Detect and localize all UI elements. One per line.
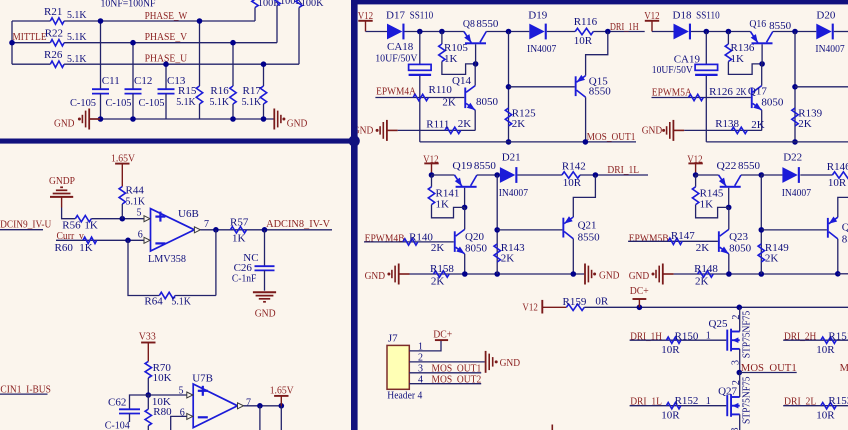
junction node column top xyxy=(494,172,500,178)
junction CA19 top xyxy=(704,29,710,35)
wire DRI_1H to Q15 emitter xyxy=(586,32,608,76)
wire V12 to R159 xyxy=(542,306,566,308)
wire rail exit right xyxy=(838,273,848,275)
svg-text:6: 6 xyxy=(180,408,185,419)
diode D20 IN4007 xyxy=(816,24,831,40)
wire GNDP to R56 xyxy=(62,208,76,219)
wire J7 pin2 to GND xyxy=(409,361,485,363)
wire V12 to D17 xyxy=(366,31,388,33)
junction C12 top xyxy=(130,40,136,46)
svg-text:GND: GND xyxy=(629,270,650,282)
wire ADCIN9_IV-U stub xyxy=(0,229,43,231)
junction rail / node column xyxy=(506,29,512,35)
svg-text:10UF/50V: 10UF/50V xyxy=(375,52,417,64)
junction rail bottom xyxy=(792,139,798,145)
junction pin6 feedback xyxy=(125,238,131,244)
svg-text:10K: 10K xyxy=(153,372,172,384)
svg-text:R110: R110 xyxy=(429,84,453,96)
svg-text:DC+: DC+ xyxy=(433,329,452,341)
svg-text:5: 5 xyxy=(137,208,142,219)
wire EPWM4B to Q20 base xyxy=(364,241,454,243)
wire J7 pin3 xyxy=(409,372,481,374)
svg-text:MOS_OUT2: MOS_OUT2 xyxy=(840,362,848,374)
svg-text:IN4007: IN4007 xyxy=(527,43,557,55)
transistor Q22 8550 xyxy=(720,186,741,188)
op-amp U6B LMV358 xyxy=(151,209,195,251)
wire V12 rail xyxy=(691,31,750,33)
mosfet Q25 STP75NF75 xyxy=(726,330,728,351)
svg-text:C-1nF: C-1nF xyxy=(232,273,257,285)
resistor R64 5.1K xyxy=(159,292,175,298)
svg-text:2K: 2K xyxy=(736,86,747,98)
diode D19 IN4007 xyxy=(529,24,544,40)
svg-text:R158: R158 xyxy=(430,263,454,275)
resistor R22 5.1K xyxy=(50,40,64,46)
svg-text:R141: R141 xyxy=(436,187,460,199)
junction C13 top xyxy=(163,61,169,67)
svg-text:IN4007: IN4007 xyxy=(815,43,845,55)
wire D19 to R116 xyxy=(547,31,575,33)
wire node column xyxy=(794,32,796,142)
wire D20 exit right xyxy=(834,31,848,33)
svg-text:R153: R153 xyxy=(828,395,848,407)
svg-text:R151: R151 xyxy=(828,330,848,342)
svg-text:Q22: Q22 xyxy=(717,160,737,172)
resistor 100K pullup U xyxy=(296,0,302,8)
svg-text:2K: 2K xyxy=(501,252,515,264)
junction R16 top xyxy=(230,40,236,46)
svg-text:10NF=100NF: 10NF=100NF xyxy=(101,0,156,9)
svg-text:100K: 100K xyxy=(301,0,324,9)
svg-text:8550: 8550 xyxy=(769,20,792,32)
svg-text:PHASE_V: PHASE_V xyxy=(145,31,188,43)
svg-text:Q14: Q14 xyxy=(452,75,471,87)
svg-text:2: 2 xyxy=(731,315,742,320)
wire GND rail row2 xyxy=(410,273,585,275)
junction output feedback xyxy=(213,227,219,233)
svg-text:GND: GND xyxy=(287,118,308,130)
resistor R153 10R xyxy=(821,403,837,409)
wire V12 rail xyxy=(405,31,464,33)
svg-text:2K: 2K xyxy=(431,242,445,254)
resistor R26 5.1K xyxy=(50,61,64,67)
svg-text:6: 6 xyxy=(138,230,143,241)
svg-text:SS110: SS110 xyxy=(410,10,434,22)
junction Q15 collector rail xyxy=(583,139,589,145)
svg-text:C11: C11 xyxy=(102,75,120,87)
diode D17 SS110 xyxy=(387,24,402,40)
svg-text:R105: R105 xyxy=(444,42,468,54)
svg-text:8550: 8550 xyxy=(738,160,761,172)
svg-text:R142: R142 xyxy=(562,161,586,173)
junction CA18 top xyxy=(417,29,423,35)
wire EPWM5B to Q23 base xyxy=(628,240,718,242)
capacitor C13 C-105 xyxy=(165,64,167,89)
svg-text:C-105: C-105 xyxy=(139,97,165,109)
junction MOS_OUT1 node xyxy=(737,370,743,376)
wire 1.65V down xyxy=(280,406,282,430)
resistor R145 1K xyxy=(695,175,697,187)
svg-text:R44: R44 xyxy=(126,184,145,196)
wire R142 to DRI_1L xyxy=(580,174,648,176)
svg-text:D22: D22 xyxy=(783,152,802,164)
wire DRI_1L to Q21 emitter xyxy=(573,175,595,217)
svg-text:1K: 1K xyxy=(436,199,450,211)
svg-text:IN4007: IN4007 xyxy=(499,187,529,199)
transistor Q16 8550 xyxy=(752,42,773,44)
svg-text:ADCIN8_IV-V: ADCIN8_IV-V xyxy=(266,218,330,230)
resistor R150 10R xyxy=(666,337,680,343)
wire GND to Q17 emitter xyxy=(684,129,762,131)
svg-text:Q23: Q23 xyxy=(729,231,748,243)
svg-text:GND: GND xyxy=(642,125,663,137)
resistor 100K pullup V xyxy=(274,0,280,6)
wire DC+ rail xyxy=(584,306,848,308)
junction Q25 drain xyxy=(737,305,743,311)
wire R116 to DRI_1H xyxy=(593,31,644,33)
svg-text:8550: 8550 xyxy=(578,232,601,244)
junction V12 stem xyxy=(693,172,699,178)
svg-text:R147: R147 xyxy=(671,230,695,242)
svg-text:D20: D20 xyxy=(816,10,835,22)
transistor Q15 8550 xyxy=(575,76,577,96)
svg-text:EPWM5B: EPWM5B xyxy=(629,233,669,245)
svg-text:5.1K: 5.1K xyxy=(67,9,87,21)
svg-text:8050: 8050 xyxy=(729,242,752,254)
junction rail C11 xyxy=(98,116,104,122)
junction DRI_1L xyxy=(593,172,599,178)
resistor R143 2K xyxy=(494,244,500,262)
wire PHASE_W xyxy=(64,20,255,22)
junction base wire row2 xyxy=(494,227,500,233)
svg-text:C-104: C-104 xyxy=(105,420,130,430)
svg-text:Q8: Q8 xyxy=(463,18,475,30)
svg-text:R136: R136 xyxy=(731,42,755,54)
svg-text:1K: 1K xyxy=(232,233,246,245)
svg-text:V33: V33 xyxy=(139,331,156,343)
wire D22 to R146 xyxy=(800,174,832,176)
svg-text:C-105: C-105 xyxy=(106,97,132,109)
junction DC+ stem xyxy=(637,305,643,311)
svg-text:EPWM4B: EPWM4B xyxy=(365,233,405,245)
wire Q19 collector to node xyxy=(477,174,497,176)
resistor R138 2K xyxy=(731,127,747,133)
svg-text:R26: R26 xyxy=(44,49,63,61)
junction R57 C26 xyxy=(262,227,268,233)
resistor R147 2K xyxy=(668,238,682,244)
svg-text:Q16: Q16 xyxy=(749,18,766,30)
svg-text:SS110: SS110 xyxy=(696,10,720,22)
svg-text:1K: 1K xyxy=(444,53,458,65)
wire D21 to R142 xyxy=(517,174,562,176)
transistor Q14 8050 xyxy=(464,88,466,109)
junction 1.65V node xyxy=(279,403,285,409)
border top right xyxy=(351,0,848,4)
resistor R140 2K xyxy=(403,239,418,245)
wire Q18 base exit right xyxy=(795,86,848,88)
transistor Q17 8050 xyxy=(751,88,753,109)
wire MOS_OUT rail xyxy=(706,141,848,143)
svg-text:DRI_1H: DRI_1H xyxy=(610,21,639,33)
svg-text:7: 7 xyxy=(204,219,209,230)
wire pin6 xyxy=(171,416,187,430)
junction rail C12 xyxy=(130,116,136,122)
wire D22 wire from node xyxy=(761,174,782,176)
svg-text:Header 4: Header 4 xyxy=(387,389,422,401)
svg-text:Q24: Q24 xyxy=(842,222,848,234)
capacitor C62 C-104 xyxy=(130,395,149,409)
svg-text:Q21: Q21 xyxy=(578,220,597,232)
resistor R141 1K xyxy=(431,175,433,187)
svg-text:GND: GND xyxy=(365,270,386,282)
wire V12 to Q22 xyxy=(696,174,719,176)
transistor Q24 8550 (partial) xyxy=(827,218,829,238)
resistor R146 10R xyxy=(832,172,848,178)
resistor R21 5.1K xyxy=(50,18,64,24)
svg-text:1K: 1K xyxy=(700,199,714,211)
diode D18 SS110 xyxy=(674,24,689,40)
svg-text:V12: V12 xyxy=(522,302,538,314)
svg-text:5.1K: 5.1K xyxy=(67,53,87,65)
svg-text:5: 5 xyxy=(179,386,184,397)
resistor R110 2K xyxy=(413,94,428,100)
svg-text:LMV358: LMV358 xyxy=(148,253,186,265)
ground GND (J7) xyxy=(485,351,487,373)
resistor R148 2K xyxy=(698,271,714,277)
wire feedback loop xyxy=(128,240,159,295)
wire DRI_2L to R153 xyxy=(783,405,848,407)
svg-text:Q19: Q19 xyxy=(452,160,472,172)
svg-text:8050: 8050 xyxy=(476,96,499,108)
svg-text:C12: C12 xyxy=(134,75,152,87)
svg-text:GND: GND xyxy=(255,308,276,320)
wire ADCIN1_I-BUS stub xyxy=(0,393,48,395)
border vertical divider xyxy=(351,0,358,430)
svg-text:R152: R152 xyxy=(675,395,699,407)
wire node column row2 xyxy=(496,175,498,274)
svg-text:R80: R80 xyxy=(153,406,172,418)
resistor R15 5.1K xyxy=(199,21,201,86)
resistor R116 10R xyxy=(575,28,593,34)
svg-text:GNDP: GNDP xyxy=(49,175,75,187)
resistor R126 2K xyxy=(689,94,704,100)
svg-text:PHASE_W: PHASE_W xyxy=(145,10,188,22)
junction node column rail xyxy=(494,271,500,277)
svg-text:R159: R159 xyxy=(563,296,587,308)
resistor R136 1K xyxy=(727,32,729,45)
capacitor C11 C-105 xyxy=(100,21,102,89)
transistor Q23 8050 xyxy=(718,231,720,252)
wire EPWM4A to Q14 base xyxy=(375,97,464,99)
svg-text:R21: R21 xyxy=(44,6,62,18)
svg-text:5.1K: 5.1K xyxy=(242,96,262,108)
svg-text:R111: R111 xyxy=(426,118,449,130)
junction V12 stem xyxy=(429,172,435,178)
wire Q15 base xyxy=(509,86,575,88)
junction R105 top xyxy=(439,29,445,35)
svg-text:10R: 10R xyxy=(661,409,680,421)
resistor R70 10K xyxy=(145,361,151,378)
svg-text:Q20: Q20 xyxy=(465,231,484,243)
svg-text:STP75NF75: STP75NF75 xyxy=(741,377,752,425)
junction node column top xyxy=(759,172,765,178)
power stub bottom xyxy=(551,425,553,430)
ground GND row2 right xyxy=(584,264,586,285)
capacitor C26 C-1nF xyxy=(264,230,266,266)
wire V12 to Q19 xyxy=(432,174,455,176)
resistor R80 10K xyxy=(147,395,149,409)
wire pin5 xyxy=(148,394,193,396)
svg-text:R57: R57 xyxy=(230,216,249,228)
svg-text:2K: 2K xyxy=(765,252,779,264)
svg-text:2K: 2K xyxy=(442,97,456,109)
junction Q21 collector rail xyxy=(571,271,577,277)
svg-text:R64: R64 xyxy=(144,296,163,308)
wire node column xyxy=(508,32,510,142)
ground GND left xyxy=(78,118,81,121)
svg-text:1K: 1K xyxy=(84,219,98,231)
resistor R139 2K xyxy=(792,108,798,126)
svg-text:5.1K: 5.1K xyxy=(126,196,146,208)
svg-text:DRI_1L: DRI_1L xyxy=(607,164,639,176)
op-amp U7B xyxy=(193,384,237,428)
svg-text:2K: 2K xyxy=(695,275,709,287)
svg-text:2K: 2K xyxy=(798,118,812,130)
junction Q19 base node xyxy=(462,205,468,211)
wire Q22 collector to node xyxy=(741,174,761,176)
svg-text:C-105: C-105 xyxy=(70,97,96,109)
junction base wire xyxy=(792,84,798,90)
resistor R151 10R xyxy=(821,337,837,343)
wire GND rail row2 xyxy=(674,273,838,275)
svg-text:Q25: Q25 xyxy=(709,318,728,330)
wire output down xyxy=(259,406,261,430)
svg-text:U6B: U6B xyxy=(178,208,199,220)
resistor R149 2K xyxy=(758,244,764,262)
wire U6B output xyxy=(200,229,332,231)
wire GND to Q14 emitter xyxy=(398,129,476,131)
resistor R159 0R xyxy=(566,304,584,310)
svg-text:Q27: Q27 xyxy=(718,385,737,397)
transistor Q8 8550 xyxy=(465,42,486,44)
junction rail / node column xyxy=(792,29,798,35)
svg-text:MOS_OUT1: MOS_OUT1 xyxy=(587,131,636,143)
svg-text:R150: R150 xyxy=(675,330,699,342)
svg-text:10R: 10R xyxy=(828,177,847,189)
wire DRI_2H to R151 xyxy=(783,339,848,341)
transistor Q21 8550 xyxy=(562,218,564,238)
svg-text:10R: 10R xyxy=(816,409,835,421)
svg-text:8550: 8550 xyxy=(474,160,497,172)
svg-text:D21: D21 xyxy=(502,152,521,164)
wire DRI_1L to Q27 gate xyxy=(630,405,727,407)
junction MITTLE xyxy=(9,40,15,46)
junction Q16 base node xyxy=(759,61,765,67)
svg-text:0R: 0R xyxy=(595,296,609,308)
svg-text:D19: D19 xyxy=(528,10,547,22)
resistor R60 1K xyxy=(83,237,97,243)
wire MOS_OUT1 xyxy=(739,372,796,374)
border junction xyxy=(349,135,360,146)
ground GNDP xyxy=(50,196,73,198)
svg-text:GND: GND xyxy=(599,270,620,282)
junction R15 top xyxy=(197,18,203,24)
svg-text:10R: 10R xyxy=(661,344,680,356)
svg-text:MITTLE: MITTLE xyxy=(13,31,47,43)
diode D22 IN4007 xyxy=(782,167,797,183)
svg-text:GND: GND xyxy=(500,357,521,369)
wire J7 pin4 xyxy=(409,383,481,385)
svg-text:10UF/50V: 10UF/50V xyxy=(652,64,693,76)
svg-text:10R: 10R xyxy=(563,177,582,189)
resistor 100K pullup W xyxy=(252,0,258,8)
junction Q8 base node xyxy=(473,61,479,67)
junction R44 bottom xyxy=(120,216,126,222)
junction Q23 emitter rail xyxy=(726,271,732,277)
svg-text:5.1K: 5.1K xyxy=(67,31,87,43)
resistor R105 1K xyxy=(441,32,443,45)
svg-text:2K: 2K xyxy=(696,242,710,254)
svg-text:IN4007: IN4007 xyxy=(782,187,812,199)
wire corner to Q24 emitter xyxy=(838,197,848,217)
svg-text:R138: R138 xyxy=(715,118,739,130)
svg-text:5.1K: 5.1K xyxy=(171,296,191,308)
junction pin5 node xyxy=(146,392,152,398)
junction output branch xyxy=(257,403,263,409)
wire rail after Q8 emitter break xyxy=(773,31,817,33)
wire Q21 base xyxy=(497,229,562,231)
svg-text:2K: 2K xyxy=(751,119,765,131)
resistor R16 5.1K xyxy=(232,43,234,86)
svg-text:R116: R116 xyxy=(574,16,598,28)
svg-text:8050: 8050 xyxy=(761,96,784,108)
junction rail R16 xyxy=(230,116,236,122)
junction Q24 collector rail xyxy=(835,271,841,277)
svg-text:D17: D17 xyxy=(386,10,405,22)
junction rail bottom xyxy=(506,139,512,145)
svg-text:1: 1 xyxy=(706,331,711,342)
wire node column row2 xyxy=(760,175,762,274)
svg-text:8550: 8550 xyxy=(476,18,499,30)
svg-text:1.65V: 1.65V xyxy=(270,385,294,397)
svg-text:R145: R145 xyxy=(700,187,724,199)
junction R136 top xyxy=(726,29,732,35)
capacitor C12 C-105 xyxy=(132,43,134,89)
svg-text:ADCIN9_IV-U: ADCIN9_IV-U xyxy=(0,219,51,231)
svg-text:C62: C62 xyxy=(108,397,126,409)
resistor R152 10R xyxy=(666,403,680,409)
svg-text:2K: 2K xyxy=(512,118,526,130)
svg-text:EPWM4A: EPWM4A xyxy=(376,86,416,98)
wire Q24 base xyxy=(761,229,827,231)
svg-text:R22: R22 xyxy=(45,27,63,39)
junction rail R17 xyxy=(261,116,267,122)
svg-text:2K: 2K xyxy=(458,118,472,130)
svg-text:2K: 2K xyxy=(431,275,445,287)
wire J7 pin1 to DC+ xyxy=(409,341,441,351)
resistor R142 10R xyxy=(562,172,580,178)
resistor R125 2K xyxy=(505,108,511,126)
junction R17 top xyxy=(261,61,267,67)
transistor Q19 8550 xyxy=(456,186,477,188)
junction Q20 emitter rail xyxy=(462,271,468,277)
wire PHASE_U xyxy=(64,63,299,65)
svg-text:1K: 1K xyxy=(79,242,93,254)
svg-text:STP75NF75: STP75NF75 xyxy=(741,311,752,359)
wire DRI_1H to Q25 gate xyxy=(630,339,727,341)
wire gnd rail xyxy=(90,118,274,120)
junction C11 top xyxy=(98,18,104,24)
